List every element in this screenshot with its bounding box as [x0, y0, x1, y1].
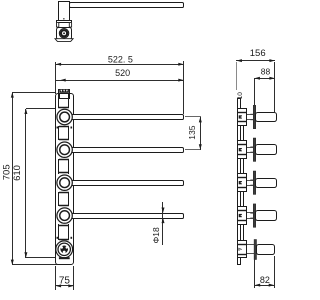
top view: screw center dot — [63, 32, 65, 34]
side view: column profile between brackets 2-3 — [241, 159, 244, 174]
side view: bracket 4 bands — [238, 210, 247, 212]
dim 522.5 left extension line — [55, 62, 57, 94]
dim 705 line — [12, 92, 14, 265]
dim 705 bottom extension line — [12, 264, 58, 266]
dim 156 left extension line (gray) — [236, 62, 238, 90]
dim 705 top arrow — [11, 92, 14, 97]
towel bar 4 (front view) — [65, 214, 184, 219]
side view: bracket 2 pivot pin — [247, 147, 253, 149]
dim phi18 lower arrow — [162, 218, 165, 223]
dim 522.5 left arrow — [56, 63, 61, 66]
side view: bracket 3 block — [238, 174, 247, 192]
side view: bracket 3 bands — [238, 177, 247, 179]
front view: upper wall screws — [57, 127, 59, 129]
front view: mount bottom tab — [59, 257, 70, 259]
dim 520 left arrow — [60, 79, 65, 82]
svg-text:135: 135 — [187, 125, 197, 139]
dim 82 right arrow — [269, 284, 274, 287]
front view: hub 2 outer circle — [57, 142, 72, 157]
dim 705 top extension line — [12, 92, 56, 94]
svg-text:522. 5: 522. 5 — [108, 55, 133, 65]
top view: screw boss dark ring — [61, 30, 67, 36]
side view: bar 3 end knob — [256, 179, 277, 188]
dim 88 left extension line — [254, 79, 256, 105]
front view: mount outer circle — [56, 241, 73, 258]
side view: bracket 2 flange — [253, 138, 255, 161]
dim 156 right extension line — [274, 62, 276, 112]
side view: bracket 1 bands — [238, 112, 247, 114]
side view: mount cover knob — [257, 245, 275, 255]
dim 520 right arrow — [178, 79, 183, 82]
svg-text:82: 82 — [260, 275, 270, 285]
side view: bracket 3 flange — [253, 171, 255, 194]
side view: bracket 3 clip detail — [239, 181, 242, 184]
side view: wall plate — [238, 99, 241, 265]
dim 75 left arrow — [56, 284, 61, 287]
side view: bracket 2 bands — [238, 144, 247, 146]
side view: bracket 4 pivot pin — [247, 212, 253, 214]
front view: hub 3 outer circle — [57, 175, 72, 190]
dim 522.5 right arrow — [178, 63, 183, 66]
svg-text:Φ18: Φ18 — [151, 227, 161, 244]
front view: neck above hub 1 — [58, 98, 60, 107]
front view: hub 3 inner circle — [60, 178, 70, 188]
dim 82 left extension line — [254, 256, 256, 288]
dim 520 line — [56, 80, 184, 82]
dim 610 top arrow — [24, 109, 27, 114]
dim phi18 upper arrow — [162, 208, 165, 213]
front view: top tab inner slot — [60, 94, 69, 99]
top view: mounting plate edge — [57, 21, 72, 23]
top view: wall escutcheon block — [57, 28, 72, 40]
front view: wall column body — [56, 94, 74, 265]
dim 135 bottom extension line — [185, 149, 201, 151]
front view: hub 4 outer circle — [57, 208, 72, 223]
dim 75 line — [56, 285, 74, 287]
dim 156 left arrow — [237, 59, 242, 62]
towel bar 3 (front view) — [65, 181, 184, 186]
dim 610 bottom arrow — [24, 252, 27, 257]
front view: hub 1 outer circle — [57, 109, 72, 124]
dim 135 top extension line — [185, 116, 201, 118]
front view: mount screw disc — [60, 246, 68, 254]
dim 135 line — [200, 117, 202, 150]
side view: bracket 4 block — [238, 207, 247, 225]
top view: screw boss outer circle — [59, 29, 68, 38]
side view: bracket 1 block — [238, 109, 247, 126]
top view: base flange — [55, 39, 73, 42]
svg-text:88: 88 — [261, 67, 271, 77]
front view: shelf above hub 1 — [58, 107, 69, 109]
dim 88 left arrow — [255, 77, 260, 80]
svg-text:610: 610 — [12, 165, 23, 181]
towel bar 1 (front view) — [65, 115, 184, 120]
side view: mount block — [238, 241, 247, 258]
side view: mount pins — [247, 244, 254, 246]
side view: bracket 1 flange — [253, 105, 255, 128]
dim 82 left arrow — [255, 284, 260, 287]
dim 82 right extension line — [274, 256, 276, 288]
top view: pivot mark — [63, 18, 64, 19]
top view: arm pivot housing (plan) — [59, 2, 70, 22]
dim 610 line — [25, 109, 27, 258]
side view: mount flange — [254, 240, 256, 260]
dim 75 right extension line — [73, 266, 75, 290]
front view: neck between hub 2 and hub 3 — [58, 159, 60, 174]
top view: right clip — [69, 23, 71, 27]
side view: column profile between brackets 4-5 — [241, 225, 244, 241]
dim 610 top extension line — [26, 108, 56, 110]
side view: bracket 1 pivot pin — [247, 114, 253, 116]
side view: mount block bands — [238, 244, 247, 246]
dim 135 bottom arrow — [199, 144, 202, 149]
dim phi18 leader line — [162, 202, 164, 245]
front view: top hanger tab — [59, 90, 70, 99]
side view: bar 4 end knob — [256, 211, 277, 221]
front view: neck between hub 3 and hub 4 — [58, 192, 60, 206]
dim 705 bottom arrow — [11, 260, 14, 265]
dim 522.5/520 right extension line — [183, 61, 185, 114]
front view: neck between hub 1 and hub 2 — [58, 126, 60, 140]
front view: hub 2 inner circle — [60, 145, 70, 155]
svg-text:156: 156 — [250, 48, 266, 59]
front view: neck between hub 4 and mount — [58, 224, 60, 240]
side view: column profile between brackets 1-2 — [241, 126, 244, 141]
svg-text:520: 520 — [115, 68, 130, 78]
dim 522.5 line — [56, 64, 184, 66]
side view: bar 2 end knob — [256, 145, 277, 155]
side view: bracket 2 block — [238, 141, 247, 159]
side view: column profile between brackets 3-4 — [241, 192, 244, 207]
side view: bracket 1 clip detail — [239, 115, 242, 118]
dim 75 right arrow — [68, 284, 73, 287]
towel bar 2 (front view) — [65, 148, 184, 153]
dim 88 right arrow — [269, 77, 274, 80]
front view: mount middle circle — [58, 243, 70, 255]
dim 75 left extension line — [55, 266, 57, 290]
front view: lower wall screws — [57, 237, 59, 239]
top view: left clip — [57, 23, 59, 27]
side view: bracket 4 flange — [253, 204, 255, 227]
front view: hub 1 inner circle — [60, 112, 70, 122]
dim 156 line — [236, 60, 275, 62]
dim 156 right arrow — [269, 59, 274, 62]
side view: bracket 2 clip detail — [239, 148, 242, 151]
dim 82 line — [255, 285, 274, 287]
side view: bar 1 end knob — [256, 113, 277, 122]
dim 88 line — [254, 78, 275, 80]
svg-text:10: 10 — [237, 92, 244, 100]
side view: bracket 3 pivot pin — [247, 180, 253, 182]
top view: towel bar (plan) — [70, 3, 184, 8]
side view: mount wedge detail — [239, 248, 243, 251]
front view: hub 4 inner circle — [60, 211, 70, 221]
dim 135 top arrow — [199, 117, 202, 122]
dim 610 bottom extension line — [26, 257, 58, 259]
svg-text:705: 705 — [1, 164, 12, 180]
svg-text:75: 75 — [59, 276, 71, 287]
side view: bracket 4 clip detail — [239, 214, 242, 217]
front view: top tab serrated band — [59, 90, 69, 93]
